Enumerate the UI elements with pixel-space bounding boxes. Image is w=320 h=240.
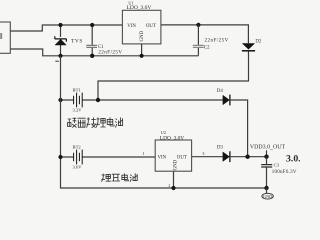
node junction bus/BT1: [58, 98, 62, 102]
node junction C3 bottom on rail: [264, 186, 268, 190]
char 池: [130, 173, 137, 181]
wire U1 OUT to D2: [161, 25, 249, 44]
char 铁: [87, 117, 96, 127]
capacitor C2: [193, 25, 204, 56]
node junction D4/D3 outputs: [245, 155, 249, 159]
wire U2 OUT pin 3 to D3: [192, 156, 223, 158]
chinese text 锂亚电池 (drawn strokes): [101, 173, 137, 181]
char 池: [115, 117, 122, 127]
svg-text:GND: GND: [263, 194, 273, 199]
battery BT1: [61, 93, 223, 108]
char 磷: [68, 118, 77, 128]
svg-text:100nF6.3V: 100nF6.3V: [272, 170, 297, 175]
diode D3: [223, 151, 267, 162]
svg-text:22nF/25V: 22nF/25V: [98, 49, 122, 55]
svg-text:OUT: OUT: [177, 155, 187, 160]
node junction C2 top: [196, 23, 200, 27]
node junction C1 bottom: [90, 54, 94, 58]
svg-text:U2: U2: [161, 130, 166, 135]
svg-text:TVS: TVS: [71, 38, 83, 44]
capacitor C1: [86, 25, 97, 56]
svg-text:3.2V: 3.2V: [73, 108, 83, 113]
char 电: [122, 173, 128, 180]
char 酸: [78, 118, 86, 127]
svg-text:GND: GND: [173, 159, 178, 170]
svg-text:D2: D2: [255, 40, 262, 45]
svg-text:3.6V: 3.6V: [73, 164, 83, 169]
node junction U1 GND on rail: [140, 54, 144, 58]
node junction bus/BT2: [58, 155, 62, 159]
ground symbol GND: [262, 188, 273, 199]
chinese text 磷酸铁锂电池 (drawn strokes): [68, 117, 123, 128]
TVS diode TVS: [55, 25, 67, 56]
node junction BT1/D2 return: [96, 98, 100, 102]
svg-text:2: 2: [168, 184, 170, 188]
char 锂: [101, 174, 110, 182]
wire connector bottom pin to ground rail: [10, 49, 198, 56]
connector P1 (left edge box): [0, 22, 10, 53]
node junction TVS top: [58, 23, 62, 27]
svg-text:VIN: VIN: [127, 24, 136, 29]
svg-text:BT2: BT2: [73, 144, 82, 149]
svg-text:VIN: VIN: [158, 155, 167, 160]
diode D2: [98, 44, 255, 101]
regulator U2 box: [155, 140, 191, 171]
svg-text:LDO_3.6V: LDO_3.6V: [127, 5, 152, 11]
node junction C3 top: [264, 155, 268, 159]
net VDD3.0_OUT port stub: [266, 150, 268, 156]
char 电: [107, 117, 114, 126]
svg-text:LDO_3.0V: LDO_3.0V: [160, 136, 185, 142]
svg-text:D3: D3: [217, 146, 224, 151]
svg-text:D4: D4: [217, 89, 224, 94]
svg-text:OUT: OUT: [146, 24, 156, 29]
svg-text:C3: C3: [274, 162, 280, 167]
diode D4: [223, 95, 248, 157]
connector text (cut off): [0, 34, 2, 38]
wire U1 GND pin: [141, 44, 143, 56]
char 亚: [112, 174, 121, 181]
regulator U1 box: [122, 10, 160, 44]
svg-text:GND: GND: [140, 30, 145, 41]
char 锂: [96, 117, 106, 127]
wire U2 GND pin: [173, 171, 175, 188]
svg-text:BT1: BT1: [73, 88, 82, 93]
svg-text:1: 1: [142, 151, 144, 156]
svg-text:3.0.: 3.0.: [286, 154, 300, 165]
capacitor C3: [261, 157, 272, 188]
node junction C1 top: [90, 23, 94, 27]
wire connector top pin to VCC rail: [10, 25, 122, 31]
node junction TVS bottom on ground rail: [58, 54, 62, 58]
minus polarity mark: [55, 60, 59, 62]
svg-text:VDD3.0_OUT: VDD3.0_OUT: [250, 145, 286, 151]
wire left bus and bottom ground rail: [61, 56, 267, 188]
node junction U2 GND on rail: [171, 186, 175, 190]
svg-text:22nF/25V: 22nF/25V: [205, 38, 229, 44]
svg-text:C2: C2: [204, 45, 210, 50]
battery BT2: [61, 150, 156, 165]
